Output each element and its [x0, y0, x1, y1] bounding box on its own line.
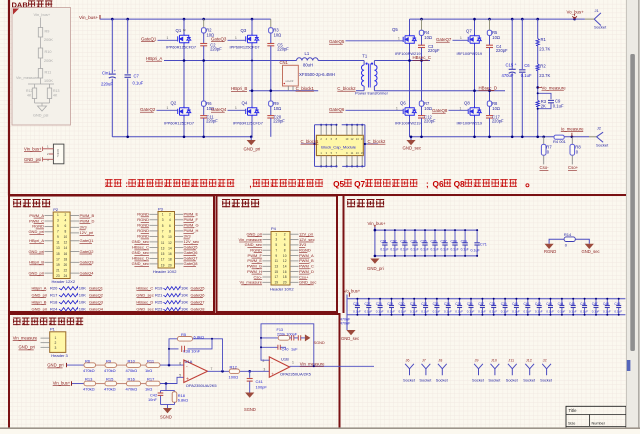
svg-text:J2: J2: [543, 359, 547, 363]
aux capacitor bank 1 (C61-C71 0.1uF): [374, 227, 376, 256]
svg-text:4K: 4K: [27, 94, 32, 98]
title block: [566, 406, 626, 429]
net label GateQ5 (P3): [175, 246, 184, 248]
svg-text:C49: C49: [614, 302, 620, 306]
svg-text:PWM_H: PWM_H: [184, 228, 199, 233]
svg-text:L1: L1: [305, 51, 310, 56]
svg-text:0.1uF: 0.1uF: [592, 310, 600, 314]
svg-text:220k: 220k: [277, 332, 285, 336]
capacitor bank2 C41: [527, 299, 529, 305]
svg-text:R19: R19: [155, 285, 163, 290]
module Block_Cap_Module: [316, 135, 363, 155]
section box input voltage sense: [9, 314, 340, 430]
svg-text:0.1uF: 0.1uF: [521, 73, 532, 78]
svg-text:12: 12: [283, 259, 287, 263]
svg-text:3: 3: [55, 346, 57, 350]
svg-text:HBpri_A: HBpri_A: [29, 238, 44, 243]
net label PWM_C (P4): [290, 265, 299, 267]
svg-text:PWM_D: PWM_D: [80, 218, 95, 223]
svg-text:80uH: 80uH: [303, 63, 313, 68]
svg-text:24: 24: [64, 274, 68, 278]
svg-text:C41: C41: [256, 379, 264, 384]
svg-text:10: 10: [168, 235, 172, 239]
net label Vo_measure: [536, 86, 539, 89]
svg-text:100Ω: 100Ω: [229, 375, 239, 380]
svg-text:C33: C33: [433, 302, 439, 306]
svg-text:C40: C40: [282, 347, 289, 351]
svg-text:220pF: 220pF: [492, 119, 504, 124]
svg-text:C38: C38: [489, 302, 495, 306]
svg-text:C43: C43: [546, 302, 552, 306]
svg-text:23: 23: [56, 274, 60, 278]
net label 12V_pri (P2): [70, 232, 79, 234]
svg-text:GND_pri: GND_pri: [244, 147, 261, 152]
svg-text:PWM_A: PWM_A: [299, 253, 314, 258]
svg-text:PWM_E: PWM_E: [247, 258, 262, 263]
svg-text:C7: C7: [134, 74, 140, 79]
svg-text:Q6: Q6: [433, 179, 444, 189]
bottom window edge: [0, 427, 640, 429]
capacitor C9 0.1uF: [538, 93, 551, 99]
svg-text:0.1uF: 0.1uF: [353, 310, 361, 314]
resistor R12 (grey): [34, 84, 36, 88]
svg-text:10K: 10K: [79, 306, 86, 311]
svg-text:470kΩ: 470kΩ: [83, 386, 95, 391]
capacitor bank2 C27: [368, 299, 370, 305]
svg-text:U1A: U1A: [185, 359, 193, 364]
svg-text:0.1uF: 0.1uF: [431, 248, 439, 252]
svg-text:GND_pri: GND_pri: [28, 229, 44, 234]
svg-text:200K: 200K: [44, 38, 53, 42]
svg-text:Cso-: Cso-: [254, 274, 263, 279]
svg-text:0.1uF: 0.1uF: [455, 310, 463, 314]
svg-text:0.1uF: 0.1uF: [603, 310, 611, 314]
faded sub-sheet divider preview: [12, 8, 71, 126]
svg-text:0.1uF: 0.1uF: [451, 248, 459, 252]
resistor R12 100R: [229, 369, 239, 374]
svg-text:GND_sec: GND_sec: [299, 280, 316, 285]
svg-text:R23: R23: [155, 306, 163, 311]
svg-text:8: 8: [169, 230, 171, 234]
resistor R3 2K: [536, 100, 539, 106]
svg-text:C48: C48: [603, 302, 609, 306]
svg-text:Block_Cap_Module: Block_Cap_Module: [321, 145, 356, 150]
svg-text:HBsec_C: HBsec_C: [132, 245, 149, 250]
svg-text:Q6: Q6: [400, 100, 406, 105]
svg-text:0.1uF: 0.1uF: [461, 248, 469, 252]
socket J2: [589, 136, 597, 138]
svg-text:17: 17: [56, 257, 60, 261]
svg-text:2: 2: [65, 213, 67, 217]
svg-text:GND_sec: GND_sec: [403, 146, 422, 151]
capacitor C6 0.1uF: [521, 19, 523, 69]
svg-text:Q1: Q1: [176, 28, 182, 33]
svg-text:Socket: Socket: [488, 377, 501, 382]
svg-text:220pF: 220pF: [277, 46, 289, 51]
svg-text:220pF: 220pF: [428, 48, 440, 53]
svg-text:12V_sec: 12V_sec: [184, 239, 200, 244]
svg-text:Vin_measure: Vin_measure: [13, 336, 38, 341]
svg-text:Socket: Socket: [523, 377, 536, 382]
svg-text:Vin_bus+: Vin_bus+: [24, 146, 42, 151]
svg-text:SGND: SGND: [314, 340, 325, 345]
resistor R13: [84, 381, 96, 386]
capacitor C40b: [298, 335, 300, 340]
svg-text:+: +: [114, 69, 116, 73]
capacitor bank2 C36: [470, 299, 472, 305]
svg-text:C6: C6: [524, 63, 530, 68]
svg-text:OPA2350UA/2K5: OPA2350UA/2K5: [280, 372, 312, 377]
svg-text:HBsec_D: HBsec_D: [132, 256, 149, 261]
svg-text:T1: T1: [362, 53, 368, 58]
wire snubber drop x=203.7: [203, 19, 205, 28]
net label PWM_F (P3): [175, 219, 184, 221]
svg-text:GateQ7: GateQ7: [191, 299, 206, 304]
svg-text:0.1uF: 0.1uF: [421, 310, 429, 314]
connector P5: [53, 144, 64, 164]
svg-text:IRF100PW219: IRF100PW219: [457, 51, 483, 56]
svg-text:C32: C32: [421, 302, 427, 306]
svg-text:R6: R6: [85, 358, 91, 363]
svg-text:R12: R12: [26, 89, 32, 93]
svg-text:220pF: 220pF: [206, 119, 218, 124]
svg-text:1: 1: [167, 36, 169, 40]
svg-text:Size: Size: [568, 422, 575, 426]
title input voltage sense interface: [13, 318, 83, 326]
svg-text:7: 7: [57, 230, 59, 234]
svg-text:GND_pri: GND_pri: [47, 363, 63, 368]
capacitor C3 220pF: [418, 44, 425, 46]
svg-text:R17: R17: [147, 377, 155, 382]
capacitor bank2 C49: [618, 299, 620, 305]
capacitor bank2 C38: [493, 299, 495, 305]
svg-text:0.1uF: 0.1uF: [380, 248, 388, 252]
svg-text:C68: C68: [451, 239, 457, 243]
svg-text:0.1uF: 0.1uF: [535, 310, 543, 314]
net label HBsec_C + wire: [410, 60, 431, 62]
svg-text:8: 8: [284, 248, 286, 252]
capacitor Cin1 220uF: [111, 19, 113, 73]
svg-text:GND_sec: GND_sec: [132, 239, 149, 244]
svg-text:GND_pri: GND_pri: [32, 292, 48, 297]
svg-text:C34: C34: [444, 302, 450, 306]
svg-text:0.1uF: 0.1uF: [580, 310, 588, 314]
svg-text:PWM_H: PWM_H: [247, 269, 262, 274]
svg-text:23.7K: 23.7K: [539, 47, 550, 52]
net label PWM_B (P2): [70, 215, 79, 217]
svg-text:10Ω: 10Ω: [492, 106, 500, 111]
svg-text:C35: C35: [455, 302, 461, 306]
resistor R8 10R: [487, 101, 491, 106]
svg-text:RGND: RGND: [32, 224, 44, 229]
resistor R11 (grey): [38, 69, 42, 79]
svg-text:Vin_measure: Vin_measure: [300, 361, 325, 366]
net label 3V3 (P4): [290, 244, 299, 246]
svg-text:RGND: RGND: [137, 234, 149, 239]
svg-text:IRF100PW219: IRF100PW219: [395, 120, 421, 125]
svg-text:PWM_A: PWM_A: [29, 213, 44, 218]
svg-text:Vin_bus+: Vin_bus+: [368, 221, 386, 226]
socket J1: [575, 18, 585, 20]
svg-text:R13: R13: [85, 377, 93, 382]
svg-text:GateQ8: GateQ8: [184, 261, 199, 266]
svg-text:PWM_E: PWM_E: [184, 212, 199, 217]
svg-text:Title: Title: [569, 408, 578, 413]
svg-text:GateQ6: GateQ6: [329, 107, 345, 112]
capacitor C68 0.1uF: [454, 230, 456, 242]
svg-text:PWM_B: PWM_B: [299, 258, 314, 263]
svg-text:R13: R13: [53, 89, 59, 93]
svg-text:18: 18: [64, 257, 68, 261]
svg-text:R10: R10: [45, 50, 52, 54]
svg-text:0.1uF: 0.1uF: [524, 310, 532, 314]
svg-text:PWM_C: PWM_C: [29, 218, 44, 223]
svg-text:C39: C39: [501, 302, 507, 306]
svg-text:14: 14: [283, 265, 287, 269]
capacitor bank2 C33: [436, 299, 438, 305]
svg-text:Q3: Q3: [241, 28, 247, 33]
net label Cso+ (P4): [290, 276, 299, 278]
title control interface: [222, 199, 259, 207]
svg-text:J10: J10: [491, 359, 497, 363]
capacitor C17 220pF: [486, 115, 493, 117]
wire snubber drop low x=270.8: [270, 91, 272, 101]
op-amp U1B OPA2350UA/2K5: [269, 357, 289, 377]
svg-text:Header 10X2: Header 10X2: [153, 269, 177, 274]
capacitor C70 0.1uF: [476, 230, 478, 242]
capacitor bank2 C47: [595, 299, 597, 305]
svg-text:0.1uF: 0.1uF: [467, 310, 475, 314]
svg-text:220pF: 220pF: [210, 46, 222, 51]
capacitor C67 0.1uF: [444, 230, 446, 242]
svg-text:RGND: RGND: [299, 248, 311, 253]
wire secondary leg 1: [409, 19, 411, 34]
svg-text:GND_pri: GND_pri: [28, 270, 44, 275]
capacitor C63 0.1uF: [404, 230, 406, 242]
ground GND_pri (aux bank): [370, 259, 379, 264]
svg-text:C64: C64: [411, 239, 417, 243]
svg-text:C69: C69: [461, 239, 467, 243]
resistor R5 10R: [487, 30, 491, 35]
wire snubber drop x=489.5: [489, 19, 491, 30]
svg-text:Socket: Socket: [506, 377, 519, 382]
svg-text:RGND: RGND: [137, 228, 149, 233]
capacitor bank2 C32: [425, 299, 427, 305]
svg-text:8: 8: [65, 230, 67, 234]
svg-text:Vo_measure: Vo_measure: [240, 280, 263, 285]
svg-text:C37: C37: [478, 302, 484, 306]
ground SGND (RC): [163, 408, 172, 413]
wire T1 secondary top: [374, 60, 409, 62]
capacitor C2 220pF: [200, 43, 207, 45]
svg-text:2: 2: [263, 359, 265, 363]
resistor R2 23.7K: [536, 64, 539, 70]
svg-text:13: 13: [161, 246, 165, 250]
svg-text:14: 14: [64, 246, 68, 250]
resistor R13 220k: [261, 337, 278, 339]
svg-text:470kΩ: 470kΩ: [104, 386, 116, 391]
svg-text:0.1uF: 0.1uF: [387, 310, 395, 314]
wire snubber drop x=270.8: [270, 19, 272, 28]
svg-text:GateQ1: GateQ1: [141, 36, 157, 41]
svg-text:C61: C61: [380, 239, 386, 243]
title drive interface: [13, 199, 50, 207]
capacitor bank2 C39: [504, 299, 506, 305]
svg-text:R12: R12: [230, 365, 238, 370]
svg-text:1: 1: [275, 232, 277, 236]
svg-text:0.1uF: 0.1uF: [365, 310, 373, 314]
svg-text:3: 3: [162, 218, 164, 222]
svg-text:1uF: 1uF: [291, 347, 298, 351]
svg-text:C_block2: C_block2: [368, 139, 387, 144]
svg-text:GND_pri: GND_pri: [19, 345, 35, 350]
svg-text:IPP60R125CFD7: IPP60R125CFD7: [233, 120, 263, 125]
svg-text:GND_sec: GND_sec: [136, 306, 153, 311]
svg-text:GND_sec: GND_sec: [136, 292, 153, 297]
net label PWM_A (P4): [290, 255, 299, 257]
svg-text:200K: 200K: [44, 59, 53, 63]
svg-text:3: 3: [57, 219, 59, 223]
svg-text:1: 1: [167, 106, 169, 110]
resistor R4 10R: [419, 30, 423, 35]
resistor R6: [84, 363, 96, 368]
capacitor C4 220pF: [486, 44, 493, 46]
svg-text:17: 17: [275, 275, 279, 279]
svg-text:IPP60R125CFD7: IPP60R125CFD7: [164, 120, 194, 125]
RC to ground C42/R18: [165, 384, 167, 391]
svg-text:RGND: RGND: [250, 248, 262, 253]
svg-text:C_block1: C_block1: [296, 86, 315, 91]
svg-text:Q7: Q7: [354, 179, 365, 189]
svg-text:0.1uF: 0.1uF: [546, 310, 554, 314]
svg-text:;: ;: [426, 180, 429, 189]
capacitor bank2 C34: [447, 299, 449, 305]
svg-text:3V3: 3V3: [184, 234, 192, 239]
svg-text:Header 12X2: Header 12X2: [52, 279, 76, 284]
svg-text:Vin_bus+: Vin_bus+: [34, 12, 51, 17]
svg-text:220pF: 220pF: [496, 48, 508, 53]
svg-text:GateQ1: GateQ1: [80, 238, 95, 243]
svg-text:23.7K: 23.7K: [539, 73, 550, 78]
svg-text:P3: P3: [158, 206, 164, 211]
svg-text:3V3: 3V3: [299, 242, 307, 247]
svg-text:GateQ5: GateQ5: [191, 285, 206, 290]
svg-text:RGND: RGND: [137, 217, 149, 222]
svg-text:GateQ1: GateQ1: [89, 285, 104, 290]
svg-text:Socket: Socket: [403, 377, 416, 382]
module CN1 XFS500: [283, 65, 299, 86]
svg-text:C27: C27: [365, 302, 371, 306]
svg-text:4: 4: [284, 238, 286, 242]
svg-text:Cso-: Cso-: [540, 165, 550, 170]
svg-text:U1B: U1B: [281, 356, 289, 361]
capacitor C11 220pF: [200, 115, 207, 117]
svg-text:470kΩ: 470kΩ: [104, 368, 116, 373]
svg-text:GND_sec: GND_sec: [582, 249, 600, 254]
svg-text:2: 2: [284, 232, 286, 236]
net label GateQ4 (P2): [70, 272, 79, 274]
svg-text:Power transformer: Power transformer: [355, 91, 389, 96]
svg-text:GateQ3: GateQ3: [80, 260, 95, 265]
warning note text: [105, 179, 122, 187]
capacitor C42 10nF: [160, 391, 162, 393]
svg-text:GateQ7: GateQ7: [436, 37, 452, 42]
svg-text:0.1uF: 0.1uF: [444, 310, 452, 314]
capacitor bank2 C30: [402, 299, 404, 305]
capacitor C15 470uF: [511, 19, 513, 69]
svg-text:R15: R15: [106, 377, 114, 382]
svg-text:SGND: SGND: [160, 414, 172, 419]
svg-text:Socket: Socket: [596, 143, 609, 148]
resistor R6 10R: [202, 101, 206, 106]
svg-text:0.1uF: 0.1uF: [390, 248, 398, 252]
svg-text:470kΩ: 470kΩ: [83, 368, 95, 373]
svg-text:7: 7: [162, 230, 164, 234]
svg-text:GateQ8: GateQ8: [432, 108, 448, 113]
svg-text:C15: C15: [506, 63, 514, 68]
svg-text:IPP60R125CFD7: IPP60R125CFD7: [230, 44, 260, 49]
svg-text:1: 1: [396, 106, 398, 110]
svg-text:GND_sec: GND_sec: [132, 250, 149, 255]
svg-text:9: 9: [162, 235, 164, 239]
svg-text:4K: 4K: [53, 94, 58, 98]
resistor R1 23.7K: [536, 39, 539, 46]
svg-text:19: 19: [275, 281, 279, 285]
svg-text:J6: J6: [406, 359, 410, 363]
svg-text:9: 9: [275, 254, 277, 258]
svg-text:Vo_bus+: Vo_bus+: [344, 288, 361, 293]
svg-text:GND_pri: GND_pri: [246, 232, 262, 237]
svg-text:6: 6: [65, 224, 67, 228]
svg-text:R17: R17: [50, 292, 58, 297]
svg-text:0.1uF: 0.1uF: [558, 310, 566, 314]
svg-text:0.1uF: 0.1uF: [376, 310, 384, 314]
ground GND_sec (R14): [585, 244, 594, 249]
svg-text:12: 12: [64, 241, 68, 245]
svg-text:C26: C26: [353, 302, 359, 306]
svg-text:Vin_bus+: Vin_bus+: [53, 381, 71, 386]
svg-text:R16: R16: [128, 377, 136, 382]
svg-text:P1: P1: [50, 327, 56, 332]
svg-text:2: 2: [169, 213, 171, 217]
svg-text:0.1uF: 0.1uF: [399, 310, 407, 314]
svg-text:XFS500-2p-6.4MH: XFS500-2p-6.4MH: [299, 72, 335, 77]
svg-text:R25: R25: [155, 299, 163, 304]
svg-text:0.1uF: 0.1uF: [133, 81, 144, 86]
svg-text:GateQ6: GateQ6: [184, 250, 199, 255]
svg-text:10Ω: 10Ω: [492, 35, 500, 40]
svg-text:HBsec_C: HBsec_C: [413, 55, 432, 60]
svg-text:C65: C65: [421, 239, 427, 243]
net label PWM_E (P3): [175, 213, 184, 215]
capacitor bank2 C45: [572, 299, 574, 305]
svg-text:RGND: RGND: [544, 249, 556, 254]
svg-text:C62: C62: [390, 239, 396, 243]
svg-text:J8: J8: [438, 359, 442, 363]
svg-text:1: 1: [292, 361, 294, 365]
svg-text:7: 7: [211, 367, 213, 371]
wire primary top bus: [100, 18, 271, 20]
svg-text:10nF: 10nF: [148, 397, 157, 402]
svg-text:R11: R11: [45, 71, 52, 75]
svg-text:C30: C30: [399, 302, 405, 306]
svg-text:15: 15: [56, 252, 60, 256]
svg-text:1: 1: [460, 106, 462, 110]
svg-text:14: 14: [168, 246, 172, 250]
section box DAB main circuit: [8, 0, 10, 196]
capacitor bank2 C42: [538, 299, 540, 305]
svg-text:HBsec_D: HBsec_D: [479, 86, 498, 91]
